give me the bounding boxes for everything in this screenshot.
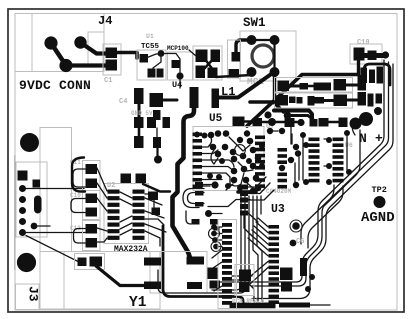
silkscreen J4 pin box bbox=[88, 32, 104, 66]
wire SW1 right rail bbox=[273, 40, 275, 72]
wire U7 pad0 link bbox=[245, 120, 253, 122]
IC U8 left pads column bbox=[255, 136, 265, 188]
svg-text:U4: U4 bbox=[172, 80, 182, 90]
wire C19 down bbox=[357, 61, 360, 75]
via below D3 bbox=[374, 107, 382, 115]
connector J3 round pads bbox=[19, 185, 26, 236]
svg-text:J3: J3 bbox=[26, 286, 41, 302]
capacitor C5 pad bbox=[134, 136, 144, 148]
wire D4 to Y1 bbox=[96, 266, 146, 286]
svg-text:U5: U5 bbox=[209, 113, 223, 125]
wire fan from mid column to right bbox=[244, 177, 274, 236]
wire MCLR row bbox=[216, 75, 252, 77]
regulator pad small bbox=[153, 110, 161, 120]
connector column J2 pads bbox=[222, 223, 232, 305]
wire cap hook 1 bbox=[73, 169, 85, 187]
capacitor C6b pad top bbox=[239, 270, 251, 282]
mounting hole pad bottom bbox=[17, 253, 36, 272]
via U7 a bbox=[268, 118, 276, 126]
silkscreen MCLR box bbox=[228, 40, 241, 78]
label MCLR bbox=[247, 76, 264, 87]
wire J4 pad1 to pad3 bbox=[51, 43, 66, 66]
silkscreen MCP100 box bbox=[168, 52, 193, 80]
pad bar right row1 bbox=[358, 75, 367, 91]
label N + bbox=[359, 131, 383, 146]
IC U5 via field bbox=[208, 130, 262, 194]
capacitor C19 pad right bbox=[368, 51, 377, 61]
pad bar P5 bbox=[210, 219, 219, 225]
connector J4 pad 3 bbox=[59, 59, 72, 72]
svg-text:MCP100: MCP100 bbox=[167, 45, 189, 52]
resistor U7 pad 3 bbox=[310, 119, 318, 127]
resistor U7 pad 5 bbox=[339, 118, 348, 128]
pad square S2 bbox=[210, 281, 221, 289]
resistor U7 pad 4 bbox=[319, 118, 329, 127]
label SW1 bbox=[243, 16, 266, 30]
connector J3 oval pad bbox=[34, 196, 42, 214]
label U6 bbox=[345, 142, 353, 149]
wire SW1 pads top rail bbox=[252, 39, 275, 41]
label U2 bbox=[107, 182, 115, 190]
ring trace around via d bbox=[211, 242, 221, 252]
mounting hole pad top bbox=[20, 133, 39, 152]
svg-text:C4: C4 bbox=[119, 98, 127, 106]
label L1 bbox=[221, 85, 235, 99]
wire fan U2 right to trunk bbox=[145, 198, 166, 246]
crystal Y1 pad right bottom bbox=[187, 282, 202, 289]
wire MCP100 to W2 bbox=[189, 50, 196, 56]
label C10 bbox=[70, 192, 81, 199]
wire J3 low row bbox=[26, 232, 85, 234]
via pair mid bbox=[264, 111, 291, 119]
resistor U7 pad 1 bbox=[253, 118, 263, 127]
label 232A fragment bbox=[0, 0, 1, 1]
wire bus left racetrack bbox=[163, 226, 243, 303]
wire inner left edge bbox=[14, 155, 16, 270]
switch SW1 silkscreen body bbox=[240, 31, 296, 81]
pad bar P2 bbox=[195, 191, 204, 196]
pad square S3 bbox=[280, 268, 293, 281]
wire thick stub below U5 bbox=[238, 190, 256, 194]
wire W2 cross 2 bbox=[203, 57, 215, 70]
switch SW1 pad 3 bbox=[247, 67, 257, 77]
pad C6 bbox=[153, 137, 161, 148]
wire main vertical trunk L1 to Y1 bbox=[173, 107, 195, 258]
crystal Y1 pad right bbox=[187, 257, 205, 265]
wire R7 R8 link bbox=[153, 200, 155, 207]
capacitor C1 silkscreen bbox=[103, 44, 121, 75]
IC U8 right pads column bbox=[278, 148, 288, 189]
wire U4 via down bbox=[179, 79, 181, 88]
silkscreen bottom-left box bbox=[40, 252, 160, 310]
silkscreen outline connector J4 area bbox=[15, 14, 104, 72]
IC U3 left pads column bbox=[309, 138, 320, 183]
wire left feed row2 bbox=[250, 100, 278, 104]
vias around U3 columns bbox=[300, 130, 352, 185]
via below C6 bbox=[154, 156, 162, 164]
capacitor C1 pad top bbox=[106, 48, 118, 59]
wire U1 via down bbox=[153, 56, 161, 76]
wire L1 to SW1 diagonal bbox=[219, 74, 272, 98]
IC U1 pad bbox=[140, 54, 149, 63]
wire C15 right bbox=[346, 84, 358, 87]
svg-text:U6: U6 bbox=[345, 142, 353, 149]
switch SW1 pad 2 bbox=[270, 35, 280, 45]
wire long diagonal L1 row to C19 bbox=[247, 75, 357, 127]
silkscreen D4 box bbox=[75, 254, 105, 270]
wire N hook bbox=[352, 125, 355, 135]
IC U1 pads lower bbox=[148, 69, 164, 78]
silkscreen J3 pad box bbox=[16, 162, 47, 237]
label U5 bbox=[209, 113, 223, 125]
IC U2 right pads column bbox=[133, 190, 145, 240]
connector J3 via bbox=[31, 180, 40, 230]
wire cap hook 3 bbox=[74, 229, 86, 244]
pad mid R8 bbox=[152, 208, 161, 216]
via U7 c bbox=[297, 119, 304, 126]
pad bar right row2 bbox=[358, 92, 367, 106]
test point TP2 pad bbox=[374, 196, 386, 208]
resistor R3 pad bbox=[278, 81, 290, 92]
wire bundle down from U3 b bbox=[301, 185, 334, 244]
wire mid to U7 row bbox=[288, 116, 317, 123]
wire J3 mid row bbox=[38, 225, 51, 227]
wire bundle from battery down bbox=[324, 130, 360, 206]
resistor row 1 silkscreen bbox=[275, 78, 353, 93]
pad square S1 bbox=[207, 268, 219, 280]
wire C19 to via bbox=[365, 53, 384, 58]
wire R4 bbox=[308, 85, 314, 88]
resistor R6 pads bbox=[308, 96, 325, 106]
resistor W2 pad A bbox=[196, 50, 208, 63]
capacitor bank left of U2 bbox=[86, 164, 98, 248]
wire cap hook 2 bbox=[71, 199, 85, 213]
svg-text:GND 5V: GND 5V bbox=[131, 110, 153, 117]
wire bottom horizontal pair bbox=[232, 275, 252, 277]
silkscreen J3 label box bbox=[16, 284, 40, 310]
resistor W2 pad B bbox=[211, 50, 221, 63]
wire right edge bundle 2 bbox=[252, 62, 389, 286]
capacitor C6b pad bottom bbox=[239, 283, 250, 293]
label C4 bbox=[119, 98, 127, 106]
IC U5 silkscreen bbox=[193, 127, 264, 191]
wire U7 a bbox=[262, 121, 268, 123]
diode D2 bar 1 bbox=[361, 68, 368, 84]
wire right edge bundle 3 bbox=[252, 64, 393, 299]
IC U5 left pads column bbox=[193, 133, 203, 189]
pad bar P3 bbox=[195, 202, 204, 207]
ring trace around via c bbox=[209, 228, 220, 239]
IC U2 silkscreen bbox=[104, 184, 149, 244]
label AGND bbox=[361, 210, 395, 226]
silkscreen cap bank boxes bbox=[83, 161, 101, 251]
pad bottom right bundle bbox=[300, 258, 307, 276]
label MAX232A bbox=[114, 245, 148, 254]
wire R6 to C16 bbox=[324, 99, 334, 102]
IC U3 right pads column bbox=[333, 138, 344, 183]
wire hook outer bbox=[183, 189, 204, 208]
wire SW1 pad1 hook to MCLR pad bbox=[236, 40, 252, 56]
wire U1 via to U4 via bbox=[164, 54, 180, 73]
wire U8 verticals bbox=[270, 131, 299, 180]
capacitor C19 silkscreen bbox=[350, 44, 382, 64]
svg-text:Y1: Y1 bbox=[129, 295, 147, 311]
resistor W2 pad D bbox=[208, 68, 218, 79]
IC U4 pad bbox=[172, 60, 180, 68]
resistor W2 silkscreen bbox=[193, 46, 222, 80]
wire regulator to trunk bbox=[163, 99, 177, 102]
wire diag below caps bbox=[143, 184, 170, 192]
wire via stubs bbox=[217, 227, 222, 247]
wire W2 cross 1 bbox=[204, 58, 214, 71]
capacitor C4 pad bottom bbox=[134, 117, 144, 128]
pad bar P1 left of U3 bbox=[195, 182, 203, 188]
capacitor C4 pad top bbox=[134, 88, 144, 104]
via mid hook bbox=[205, 210, 212, 217]
via right of J5 bbox=[290, 222, 300, 246]
silkscreen U1 box bbox=[137, 50, 166, 80]
column bars mid-board bbox=[240, 185, 248, 216]
label Y1 bbox=[129, 295, 147, 311]
capacitor C6b silkscreen box bbox=[235, 265, 254, 296]
resistor R4 pads bbox=[314, 83, 332, 91]
svg-text:TC55: TC55 bbox=[141, 43, 160, 51]
label J3 rotated bbox=[26, 286, 41, 302]
resistor R5 small pads bbox=[289, 97, 303, 104]
wire C16 right bbox=[347, 99, 358, 102]
wire hook around D2 bbox=[364, 64, 390, 87]
bottom copper bar 1 bbox=[230, 303, 276, 309]
switch SW1 button circle bbox=[252, 45, 274, 67]
label gray small bottom strip bbox=[232, 298, 265, 305]
label J4 bbox=[98, 14, 112, 28]
diode D3 bars bbox=[368, 94, 383, 107]
label U3 bbox=[271, 203, 285, 216]
diode D2 bar 2 bbox=[369, 70, 375, 84]
inductor L1 pad right bbox=[212, 89, 220, 109]
via right of C19 bbox=[382, 51, 389, 58]
wire fan from J5 up-left bbox=[248, 218, 268, 256]
wire J4 pad3 to C1 bbox=[66, 63, 108, 67]
svg-text:9VDC CONN: 9VDC CONN bbox=[19, 78, 91, 93]
regulator pad big bbox=[150, 93, 164, 107]
wire C4 link bbox=[138, 104, 141, 117]
connector J4 pad 1 bbox=[44, 36, 57, 49]
label GND 5V bbox=[131, 110, 153, 117]
wire bottom-left horizontal bbox=[26, 236, 78, 262]
wire C6 to via bbox=[156, 148, 158, 156]
wire R3 bbox=[289, 85, 300, 88]
capacitor C1 pad bottom bbox=[106, 60, 118, 71]
pad mid R7 bbox=[148, 192, 158, 201]
vias U5 top pair bbox=[194, 132, 208, 139]
extra vias U5 field bbox=[207, 130, 265, 191]
IC U5 ring traces bbox=[202, 137, 253, 190]
pad bar P4 bbox=[192, 219, 200, 225]
svg-text:U1: U1 bbox=[146, 33, 154, 40]
resistor row 2 silkscreen bbox=[275, 93, 353, 108]
resistor R3 pad b bbox=[300, 83, 309, 90]
inductor L1 pad left bbox=[190, 87, 199, 108]
label MCP100 bbox=[167, 45, 189, 52]
ring trace around via b bbox=[290, 220, 302, 232]
pads row below regulator bbox=[147, 117, 170, 128]
label C6 gray bottom bbox=[296, 238, 304, 246]
IC U2 left pads column bbox=[108, 190, 120, 240]
label U7 bbox=[266, 123, 274, 131]
vias around U8 bbox=[279, 128, 301, 188]
crystal Y1 pad left top bbox=[144, 258, 161, 266]
bottom copper bar 2 bbox=[279, 303, 310, 308]
svg-text:C6: C6 bbox=[296, 238, 304, 246]
switch SW1 pad 1 bbox=[247, 35, 257, 45]
crystal Y1 pad left bottom bbox=[144, 282, 161, 290]
svg-text:C1: C1 bbox=[104, 77, 112, 85]
wire bundle center vertical bbox=[212, 192, 262, 301]
label C04020M bbox=[266, 188, 292, 195]
silkscreen connector J3 outline bbox=[40, 128, 72, 252]
wire U7 d bbox=[328, 121, 340, 123]
svg-text:AGND: AGND bbox=[361, 210, 395, 226]
wire J3 pin1 row bbox=[26, 188, 84, 190]
label U4 bbox=[172, 80, 182, 90]
pad left of SW1 bottom bbox=[229, 69, 240, 78]
svg-text:U3: U3 bbox=[271, 203, 285, 216]
connector J3 pad small bbox=[33, 180, 41, 188]
pad MCLR bbox=[232, 52, 241, 62]
resistor R5 pad bbox=[277, 95, 289, 106]
pad bar P6 bbox=[214, 227, 220, 231]
wire below Y1 bundle bbox=[158, 270, 212, 293]
label C12 bbox=[70, 225, 81, 232]
pad square S4 bbox=[281, 282, 292, 292]
wire J4 pad2 to C1 bbox=[81, 43, 109, 54]
svg-text:TP2: TP2 bbox=[372, 185, 387, 195]
silkscreen connector column box bbox=[218, 220, 237, 309]
resistor W2 pad C bbox=[196, 66, 206, 79]
vias left of connector column bbox=[211, 224, 219, 249]
label TC55 bbox=[141, 43, 160, 51]
label U1 bbox=[146, 33, 154, 40]
ring trace around via bbox=[235, 145, 246, 156]
capacitor C19 pad left bbox=[354, 48, 365, 61]
svg-text:SW1: SW1 bbox=[243, 16, 266, 30]
wire below hook bbox=[186, 211, 191, 224]
wire U2 fan to caps bbox=[97, 168, 107, 242]
label TP2 bbox=[372, 185, 387, 195]
via U8 extra bbox=[267, 128, 273, 134]
wire U7 c bbox=[294, 121, 301, 123]
wire P1 to via bbox=[203, 184, 212, 186]
svg-text:MAX232A: MAX232A bbox=[114, 245, 148, 254]
wire pads link vertical bbox=[156, 128, 158, 137]
connector column J5 pads bbox=[269, 225, 280, 304]
wire U3 fan left lower bbox=[232, 262, 268, 285]
diode D2 bar 3 bbox=[377, 67, 384, 84]
IC U2 pads above bbox=[121, 174, 147, 184]
via big right of U7 bbox=[350, 118, 362, 130]
via bottom right b bbox=[305, 286, 311, 292]
pad D4 left bbox=[78, 258, 87, 267]
resistor U7 pad 2 bbox=[285, 118, 295, 127]
capacitor C16 pad bbox=[334, 95, 348, 107]
pad D4 right bbox=[90, 257, 103, 267]
via bottom right a bbox=[309, 274, 315, 280]
wire top thick bus bbox=[274, 111, 312, 120]
wire right edge bundle 1 bbox=[214, 60, 384, 282]
connector J3 pad square bbox=[18, 171, 28, 181]
label C1 bbox=[104, 77, 112, 85]
wire hook inner bbox=[188, 193, 205, 204]
via right of P1 bbox=[211, 181, 218, 188]
wire fan from connector column left bbox=[210, 250, 222, 291]
battery pad positive bbox=[359, 112, 373, 126]
label C11 bbox=[70, 159, 81, 166]
wire C4 to C5 bbox=[138, 128, 141, 136]
resistor U7 pad 0 bbox=[233, 117, 245, 127]
wire U7 b bbox=[276, 121, 285, 123]
label C19 bbox=[357, 39, 370, 47]
wire fan U2 upper bbox=[120, 192, 132, 205]
crystal Y1 silkscreen bbox=[150, 252, 207, 294]
wire vertical right of U8 bbox=[291, 127, 295, 182]
switch SW1 pad 4 bbox=[270, 67, 280, 77]
via U1 bbox=[158, 50, 165, 57]
svg-text:J4: J4 bbox=[98, 14, 112, 28]
wire bundle down from U3 bbox=[308, 186, 343, 248]
via U4 bbox=[176, 72, 183, 79]
svg-text:C19: C19 bbox=[357, 39, 370, 47]
wire SW1 pad4 down diagonal bbox=[275, 72, 284, 112]
wire stubs right of U2 bbox=[145, 194, 164, 225]
capacitor C15 pad bbox=[334, 79, 347, 91]
wire U3 column links bbox=[303, 136, 347, 180]
wire via stub right bbox=[212, 213, 222, 215]
label 9VDC CONN bbox=[19, 78, 91, 93]
wire U1 pad to via bbox=[146, 54, 161, 58]
wire connecting bottom bars bbox=[310, 304, 330, 306]
wire fan U2 lower bbox=[120, 216, 132, 235]
connector J4 pad 2 bbox=[74, 36, 86, 48]
wire long from hook right bbox=[208, 200, 250, 207]
wire thick S left of U2 bbox=[72, 158, 85, 192]
wire C1 to U1 bbox=[117, 53, 137, 59]
